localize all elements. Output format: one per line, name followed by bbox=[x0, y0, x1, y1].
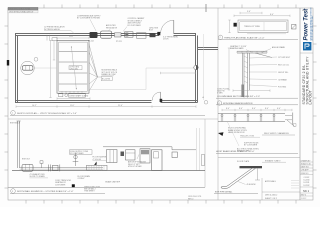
leader from callout bbox=[34, 67, 57, 69]
sheet border bbox=[8, 8, 313, 200]
top wall double line bbox=[15, 33, 218, 102]
black marker bbox=[234, 23, 237, 27]
panel top border bbox=[8, 118, 218, 120]
muffler bbox=[22, 164, 33, 171]
fan leader lines from bed right edge bbox=[89, 44, 98, 91]
right column divider bbox=[218, 156, 300, 158]
svg-text:LAYOUT: LAYOUT bbox=[309, 90, 313, 104]
column item e6 bbox=[202, 155, 205, 166]
left black arrow bbox=[218, 132, 224, 136]
panel right border bbox=[204, 119, 206, 187]
svg-text:EXH OUT: EXH OUT bbox=[22, 158, 31, 160]
svg-text:ANGLE FRAME: ANGLE FRAME bbox=[272, 46, 286, 49]
svg-text:SHEET 1 OF 2: SHEET 1 OF 2 bbox=[265, 198, 277, 200]
right wall bbox=[195, 33, 197, 102]
caption A bbox=[218, 35, 222, 39]
svg-text:HANG FROM ROOF: HANG FROM ROOF bbox=[228, 131, 246, 134]
svg-text:BY CUSTOMER 90 PSI MIN: BY CUSTOMER 90 PSI MIN bbox=[77, 18, 101, 20]
wall equipment: dark cabinet bbox=[90, 32, 98, 38]
caption 1: shop floor plan bbox=[11, 111, 16, 116]
svg-text:DRAWN BY: DRAWN BY bbox=[301, 159, 311, 162]
bottom outside dim bbox=[16, 105, 196, 107]
svg-text:FLOOR PLATE: FLOOR PLATE bbox=[237, 160, 250, 163]
trench plan outer bbox=[238, 20, 288, 33]
posts bbox=[221, 114, 275, 122]
svg-text:MTG HT 48" AFF: MTG HT 48" AFF bbox=[128, 165, 143, 168]
small box e5 bbox=[172, 152, 177, 158]
bottom door swing arc bbox=[152, 92, 160, 100]
svg-text:DWG NO: DWG NO bbox=[301, 173, 309, 175]
svg-text:2: 2 bbox=[220, 37, 221, 39]
svg-text:21'-4": 21'-4" bbox=[118, 105, 123, 107]
small schedule table bbox=[261, 178, 263, 200]
svg-text:45 ELBOW: 45 ELBOW bbox=[247, 184, 256, 186]
wall utility symbol circle-x bbox=[194, 65, 198, 69]
svg-text:REV 0: REV 0 bbox=[301, 195, 306, 197]
svg-text:DOOR: DOOR bbox=[163, 39, 169, 41]
top door leaf bbox=[173, 20, 175, 33]
svg-text:1/2" EXP BOLT: 1/2" EXP BOLT bbox=[278, 57, 291, 59]
dyno bed outer bbox=[57, 40, 89, 93]
sloped pipe bbox=[228, 168, 252, 185]
beam right end detail bbox=[285, 115, 292, 120]
title block divider under logo bbox=[300, 52, 313, 54]
pipe fitting cluster bbox=[49, 165, 51, 172]
section bottom dim bbox=[233, 89, 270, 91]
svg-text:NORTH WALL ELEVATION — UTILITI: NORTH WALL ELEVATION — UTILITIES SCALE 1… bbox=[17, 190, 74, 193]
personnel door elevation bbox=[152, 150, 163, 171]
svg-text:8'-0": 8'-0" bbox=[252, 108, 256, 110]
svg-text:CHK APP: CHK APP bbox=[301, 169, 310, 172]
svg-text:FOOTING: FOOTING bbox=[278, 86, 287, 88]
callout circle with muffler bbox=[21, 61, 35, 75]
svg-text:HOIST BEAM DETAIL SCALE 1/2": HOIST BEAM DETAIL SCALE 1/2" = 1'-0" bbox=[216, 150, 255, 153]
svg-text:#4 REBAR: #4 REBAR bbox=[278, 78, 287, 81]
title block bottom rows bbox=[300, 162, 313, 196]
beam lines bbox=[218, 113, 285, 115]
svg-text:8'-0": 8'-0" bbox=[226, 108, 230, 110]
svg-text:6'-0": 6'-0" bbox=[277, 108, 281, 110]
bed center label box bbox=[69, 66, 82, 70]
right outside dim bbox=[203, 34, 205, 100]
svg-text:11'-0": 11'-0" bbox=[70, 105, 75, 107]
svg-text:Power Test: Power Test bbox=[304, 8, 310, 41]
top-left revision table bbox=[8, 7, 38, 10]
svg-text:TRENCH PLAN DETAIL SCALE 3/8": TRENCH PLAN DETAIL SCALE 3/8" = 1'-0" bbox=[224, 36, 265, 39]
svg-text:DRIVE SHAFT GUARD: DRIVE SHAFT GUARD bbox=[69, 94, 89, 97]
svg-text:FIELD VERIFY CLEARANCES: FIELD VERIFY CLEARANCES bbox=[264, 132, 290, 135]
svg-text:1 OF 2: 1 OF 2 bbox=[301, 198, 307, 200]
svg-text:CF20 2EL: CF20 2EL bbox=[70, 68, 78, 70]
title block left border bbox=[299, 8, 301, 200]
small dark item e2 bbox=[121, 152, 125, 157]
riser bbox=[40, 161, 43, 164]
border zone ticks right bbox=[313, 26, 317, 188]
svg-text:SHOP FLOOR PLAN — UTILITY ROUG: SHOP FLOOR PLAN — UTILITY ROUGH-IN SCALE… bbox=[17, 112, 77, 115]
svg-text:PT-114: PT-114 bbox=[88, 40, 94, 42]
bed left dims bbox=[49, 40, 55, 97]
cabinet e4 bbox=[140, 149, 150, 163]
beam dim line bbox=[222, 109, 292, 111]
top door swing arc bbox=[161, 20, 174, 33]
centerline under bbox=[247, 33, 286, 35]
plate stem bbox=[257, 168, 259, 180]
bed dividers bbox=[59, 52, 88, 85]
cabinet e3 bbox=[126, 150, 136, 160]
svg-text:EXHAUST TUBE 5": EXHAUST TUBE 5" bbox=[265, 159, 281, 162]
bed top dim bbox=[57, 37, 89, 39]
svg-text:Sht 1: Sht 1 bbox=[303, 189, 310, 193]
top dims bbox=[234, 12, 290, 17]
svg-text:8'-0": 8'-0" bbox=[270, 14, 274, 16]
post hatch bbox=[244, 56, 248, 83]
wall equipment: rounded console bbox=[101, 31, 112, 38]
svg-text:BC-10736: BC-10736 bbox=[102, 78, 110, 80]
svg-text:CUSTOMER: CUSTOMER bbox=[55, 184, 66, 186]
svg-text:APPROVALS: APPROVALS bbox=[265, 180, 277, 183]
svg-text:SLOPE TO DRAIN: SLOPE TO DRAIN bbox=[30, 175, 46, 178]
right leaders and notes bbox=[250, 57, 278, 87]
svg-text:1: 1 bbox=[12, 113, 13, 115]
svg-text:GRADE LINE REF: GRADE LINE REF bbox=[105, 180, 121, 183]
svg-text:GROUT FILL: GROUT FILL bbox=[278, 72, 289, 74]
svg-text:PT-221: PT-221 bbox=[116, 41, 122, 43]
svg-text:SCALE 1:40: SCALE 1:40 bbox=[301, 163, 311, 166]
elevation wall top line bbox=[103, 147, 196, 150]
svg-text:D-2242: D-2242 bbox=[304, 185, 310, 187]
svg-text:REGULATOR: REGULATOR bbox=[106, 26, 118, 29]
cabinet e1 bbox=[107, 150, 118, 163]
label box above bbox=[70, 150, 93, 155]
panel bottom border bbox=[8, 186, 205, 188]
pipe lines bbox=[20, 167, 104, 169]
panel divider vertical bbox=[217, 8, 219, 200]
bed leader diagonals bbox=[72, 48, 74, 66]
section left dim bbox=[228, 48, 230, 90]
wall equipment: small box bbox=[115, 33, 122, 37]
dark plate bbox=[240, 166, 263, 168]
right small symbol bbox=[292, 25, 297, 30]
svg-text:3: 3 bbox=[12, 191, 13, 193]
svg-text:EXH PIPE DETAIL: EXH PIPE DETAIL bbox=[215, 190, 233, 193]
svg-text:CF20 STRUCTURAL LAYOUT: CF20 STRUCTURAL LAYOUT bbox=[9, 10, 34, 13]
top beam of section bbox=[237, 51, 267, 53]
svg-text:COLUMN BASE SECTION SCALE 3/4: COLUMN BASE SECTION SCALE 3/4" = 1'-0" bbox=[217, 95, 260, 98]
light pit outline bbox=[89, 68, 195, 90]
bottom door jamb marker bbox=[160, 99, 163, 102]
caption 2 bbox=[11, 189, 16, 194]
svg-text:THIS SHEET: THIS SHEET bbox=[84, 191, 95, 193]
drawing title rotated bbox=[302, 56, 313, 105]
leader line right bbox=[262, 161, 286, 163]
vent stack w/ cross bbox=[75, 153, 77, 166]
svg-text:14'-2": 14'-2" bbox=[32, 105, 37, 107]
svg-text:TRENCH 12" WIDE: TRENCH 12" WIDE bbox=[244, 26, 261, 28]
svg-text:DWG D-1182-2: DWG D-1182-2 bbox=[265, 195, 277, 197]
svg-text:6" MIN: 6" MIN bbox=[217, 93, 223, 95]
dyno bed inner bbox=[59, 42, 88, 91]
svg-text:BY CUSTOMER: BY CUSTOMER bbox=[70, 153, 84, 155]
left wall bbox=[15, 33, 17, 102]
elevation right wall column bbox=[196, 128, 198, 170]
small callout bubble lower right bbox=[204, 101, 208, 105]
svg-text:11'-0": 11'-0" bbox=[69, 36, 74, 38]
wall equipment: box with marks bbox=[125, 32, 134, 37]
logo blue square bbox=[303, 42, 311, 50]
svg-text:EXH STACK: EXH STACK bbox=[10, 122, 21, 125]
svg-text:8'-0": 8'-0" bbox=[265, 108, 269, 110]
border zone ticks top bbox=[44, 4, 296, 12]
bed bottom tick band bbox=[62, 91, 82, 93]
svg-text:MONORAIL BEAM ELEVATION: MONORAIL BEAM ELEVATION bbox=[223, 102, 253, 105]
logo contact lines (rotated tiny text) bbox=[311, 7, 313, 40]
svg-text:W/ PRESS GAUGE: W/ PRESS GAUGE bbox=[44, 28, 61, 31]
wall equipment: dark box bbox=[150, 33, 156, 37]
svg-text:REV 0: REV 0 bbox=[188, 198, 193, 200]
svg-text:BY CUSTOMER: BY CUSTOMER bbox=[244, 145, 258, 147]
border zone ticks bottom bbox=[26, 200, 296, 204]
svg-text:CONN 4": CONN 4" bbox=[78, 178, 86, 180]
trench grate bbox=[87, 165, 108, 170]
items under bed bbox=[59, 94, 63, 97]
bed bottom dim bbox=[57, 97, 90, 99]
top door jamb marker bbox=[157, 32, 160, 35]
svg-text:CF20 2 E/L STRUCTURAL: CF20 2 E/L STRUCTURAL bbox=[9, 8, 31, 11]
bottom wall bbox=[15, 100, 152, 102]
floor line bbox=[12, 169, 205, 171]
post verticals bbox=[242, 53, 249, 90]
interior dim line bbox=[161, 72, 196, 74]
PowerTest logo text (rotated) bbox=[304, 8, 310, 41]
svg-text:8'-0": 8'-0" bbox=[239, 108, 243, 110]
post lower bbox=[244, 90, 248, 98]
exhaust stack bbox=[18, 121, 20, 168]
border zone ticks left bbox=[5, 26, 9, 188]
wall equipment: box bbox=[137, 33, 147, 38]
svg-text:W6 X 12 COL: W6 X 12 COL bbox=[278, 64, 289, 66]
caption C bbox=[217, 101, 221, 105]
left dim bbox=[228, 20, 230, 33]
svg-text:3'-6": 3'-6" bbox=[247, 11, 251, 13]
wall-mounted regulator + drops bbox=[47, 35, 50, 41]
svg-text:BEARING BARS: BEARING BARS bbox=[230, 47, 244, 50]
stub wall to divider bbox=[197, 47, 218, 49]
left border black marker bbox=[7, 60, 9, 66]
svg-text:DATE 8/4: DATE 8/4 bbox=[301, 166, 309, 169]
svg-text:BY CUSTOMER: BY CUSTOMER bbox=[128, 25, 142, 27]
